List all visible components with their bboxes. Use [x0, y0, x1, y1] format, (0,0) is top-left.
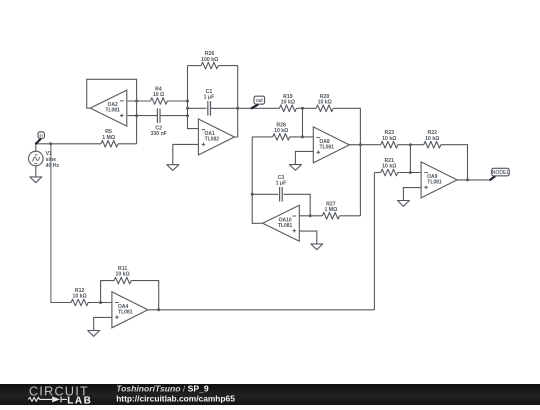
svg-text:ToshinoriTsuno / SP_9: ToshinoriTsuno / SP_9: [116, 384, 209, 394]
svg-text:10 kΩ: 10 kΩ: [274, 128, 288, 134]
svg-text:out: out: [256, 98, 264, 104]
svg-text:40 Hz: 40 Hz: [46, 163, 60, 169]
svg-text:1 μF: 1 μF: [204, 95, 215, 101]
svg-text:1 μF: 1 μF: [276, 181, 287, 187]
svg-text:1 MΩ: 1 MΩ: [102, 135, 115, 141]
svg-text:10 kΩ: 10 kΩ: [115, 272, 129, 278]
svg-text:TL081: TL081: [118, 309, 133, 315]
svg-text:330 nF: 330 nF: [150, 131, 166, 137]
svg-text:100 kΩ: 100 kΩ: [201, 57, 218, 63]
svg-text:TL081: TL081: [278, 223, 293, 229]
svg-text:http://circuitlab.com/camhp65: http://circuitlab.com/camhp65: [116, 393, 235, 403]
svg-text:in: in: [39, 133, 43, 138]
svg-text:TL081: TL081: [427, 179, 442, 185]
svg-text:TL082: TL082: [205, 137, 220, 143]
svg-text:10 kΩ: 10 kΩ: [425, 136, 439, 142]
svg-text:TL081: TL081: [319, 144, 334, 150]
svg-text:10 Ω: 10 Ω: [153, 92, 164, 98]
svg-text:10 kΩ: 10 kΩ: [281, 100, 295, 106]
svg-text:10 kΩ: 10 kΩ: [318, 100, 332, 106]
svg-text:1 MΩ: 1 MΩ: [324, 207, 337, 213]
svg-text:10 kΩ: 10 kΩ: [382, 164, 396, 170]
svg-text:10 kΩ: 10 kΩ: [72, 294, 86, 300]
svg-text:NODE1: NODE1: [492, 170, 509, 176]
svg-text:10 kΩ: 10 kΩ: [382, 136, 396, 142]
svg-text:TL081: TL081: [105, 108, 120, 114]
